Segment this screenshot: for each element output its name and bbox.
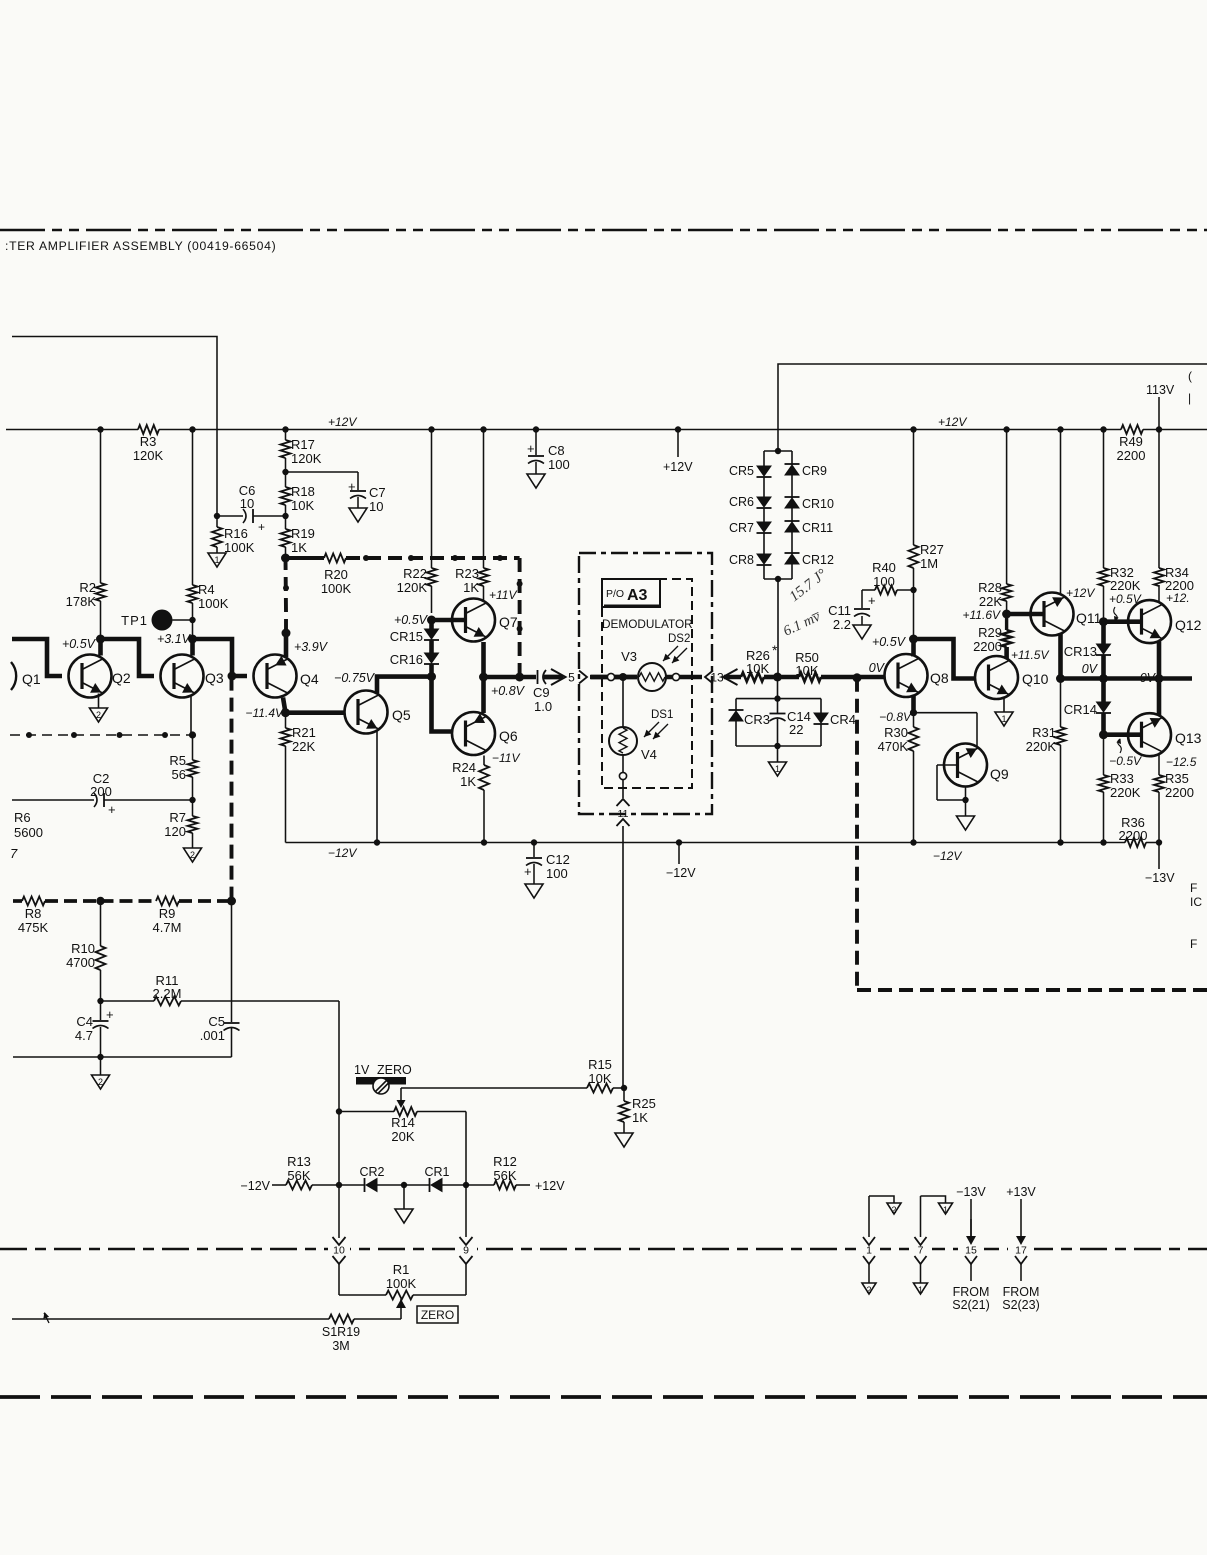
svg-text:10K: 10K (291, 498, 314, 513)
svg-text:7: 7 (10, 846, 18, 861)
svg-text:100K: 100K (321, 581, 352, 596)
svg-text:3M: 3M (332, 1339, 349, 1353)
wire Q11 collector to 0V bus (1056, 634, 1065, 683)
svg-text:1: 1 (214, 555, 219, 565)
svg-text:Q8: Q8 (930, 670, 949, 686)
resistor R30 (878, 713, 919, 846)
svg-text:R9: R9 (159, 906, 176, 921)
wire Q6 collector to R24 (483, 756, 485, 766)
transistor Q9 (944, 744, 1009, 787)
svg-text:R15: R15 (588, 1057, 612, 1072)
transistor Q2 (69, 655, 131, 698)
resistor R7 (164, 800, 197, 848)
svg-text:100K: 100K (198, 596, 229, 611)
node +3.1V at Q3 base (157, 632, 197, 646)
svg-text:TP1: TP1 (121, 613, 148, 628)
wire Q2 emitter to ground (98, 694, 100, 709)
resistor R32 (1099, 426, 1141, 621)
capacitor C2 (12, 771, 193, 817)
svg-text:470K: 470K (878, 739, 909, 754)
wire Q3 emitter (190, 695, 192, 736)
resistor R50 (778, 650, 886, 682)
wire dash-dot bias line y735 (10, 731, 196, 738)
wire top-left input (12, 337, 217, 517)
svg-text:+12V: +12V (535, 1179, 565, 1193)
capacitor C9 (533, 670, 561, 714)
wire feedback vertical (thick dashed) (227, 677, 236, 906)
resistor R3 (133, 425, 164, 463)
svg-text:17: 17 (1015, 1245, 1027, 1257)
ground at Q2 emitter (90, 708, 108, 722)
svg-text:10: 10 (369, 499, 383, 514)
svg-text:V4: V4 (641, 747, 657, 762)
resistor R31 (1026, 679, 1066, 846)
svg-text:+: + (258, 520, 265, 534)
svg-text:ZERO: ZERO (377, 1063, 412, 1077)
connector pin 17 +13V (1002, 1185, 1040, 1312)
wire -12V rail (286, 843, 1160, 864)
capacitor C14 (770, 699, 811, 746)
svg-text:R1: R1 (393, 1262, 410, 1277)
svg-text:R20: R20 (324, 567, 348, 582)
wire V3 to pin 13 (666, 673, 702, 680)
potentiometer R14 (339, 1088, 466, 1185)
wire demod input to V3 (591, 673, 637, 681)
svg-text:C4: C4 (76, 1014, 93, 1029)
svg-text:V3: V3 (621, 649, 637, 664)
capacitor C8 (527, 426, 570, 474)
svg-text:100K: 100K (386, 1276, 417, 1291)
svg-text:Q2: Q2 (112, 670, 131, 686)
svg-text:R17: R17 (291, 437, 315, 452)
svg-text:R21: R21 (292, 725, 316, 740)
resistor R15 (401, 1057, 627, 1093)
resistor R2 (66, 426, 106, 639)
diode CR1 (404, 1165, 469, 1192)
resistor R16 (212, 516, 255, 555)
svg-text:Q9: Q9 (990, 766, 1009, 782)
diode CR14 (1064, 679, 1111, 735)
svg-text:22K: 22K (292, 739, 315, 754)
svg-text:CR4: CR4 (830, 712, 856, 727)
wire feedback R8 R9 line (13, 897, 232, 905)
svg-text:+: + (524, 864, 532, 879)
wire Q7 base (thick) (432, 618, 466, 623)
svg-text:S2(21): S2(21) (952, 1298, 990, 1312)
capacitor C4 (75, 1001, 114, 1057)
svg-text:R25: R25 (632, 1096, 656, 1111)
svg-text:R49: R49 (1119, 434, 1143, 449)
svg-text:220K: 220K (1110, 578, 1141, 593)
capacitor C7 (286, 472, 386, 514)
resistor R28 (978, 426, 1011, 614)
resistor R9 (153, 897, 182, 936)
svg-text:10: 10 (240, 496, 254, 511)
svg-text:9: 9 (463, 1245, 469, 1257)
ground at R7 (184, 848, 202, 862)
svg-text:C7: C7 (369, 485, 386, 500)
svg-text:+3.1V: +3.1V (157, 632, 192, 646)
svg-text:2.2M: 2.2M (153, 986, 182, 1001)
diode CR16 (390, 652, 439, 677)
wire Q5 emitter (374, 731, 380, 846)
wire Q9 base-collector tie (937, 765, 969, 816)
resistor R8 (18, 897, 49, 936)
transistor Q4 (254, 655, 319, 698)
node +0.5V Q12 base (1099, 592, 1142, 626)
svg-text:120K: 120K (291, 451, 322, 466)
resistor R49 (1117, 425, 1146, 463)
demodulator inner box (602, 579, 692, 788)
svg-text:Q7: Q7 (499, 614, 518, 630)
svg-text:C8: C8 (548, 443, 565, 458)
svg-text:Q4: Q4 (300, 671, 319, 687)
connector pin 1 with grounds (863, 1196, 894, 1283)
clamp CR3 C14 CR4 network (736, 677, 821, 762)
resistor R20 (321, 554, 352, 597)
wire feedback right (thick dashed) (857, 678, 1207, 990)
svg-text:1K: 1K (632, 1110, 648, 1125)
resistor R22 (397, 426, 437, 613)
node +3.9V Q4 collector (282, 558, 329, 657)
diode CR3 (729, 710, 771, 727)
assembly border top (dash-dot) (0, 229, 1207, 232)
svg-text:0V: 0V (869, 661, 886, 675)
svg-text:+3.9V: +3.9V (294, 640, 329, 654)
svg-text:+: + (108, 802, 116, 817)
svg-text:R12: R12 (493, 1154, 517, 1169)
wire C4 C5 bottom (13, 1054, 232, 1075)
ground at C12 (525, 884, 543, 898)
potentiometer R1 (339, 1262, 466, 1319)
wire Q8 emitter node -0.8V (879, 696, 917, 724)
ground at CR1 CR2 (395, 1185, 413, 1223)
node +11.6V (963, 608, 1012, 622)
svg-text:+0.8V: +0.8V (491, 684, 526, 698)
ground at C11 (853, 625, 871, 639)
svg-text:5600: 5600 (14, 825, 43, 840)
wire Q12 emitter to 0V (1157, 641, 1162, 678)
svg-text:CR7: CR7 (729, 521, 754, 535)
svg-text:R27: R27 (920, 542, 944, 557)
svg-text:2: 2 (866, 1285, 871, 1295)
resistor R5 (169, 735, 197, 803)
resistor R33 (1099, 735, 1141, 846)
svg-text:4.7M: 4.7M (153, 920, 182, 935)
wire Q10 emitter to ground (1003, 698, 1005, 712)
svg-text:R6: R6 (14, 810, 31, 825)
svg-text:100: 100 (548, 457, 570, 472)
svg-text:Q6: Q6 (499, 728, 518, 744)
svg-text:1.0: 1.0 (534, 699, 552, 714)
svg-text:Q5: Q5 (392, 707, 411, 723)
svg-text:R3: R3 (140, 434, 157, 449)
svg-text:200: 200 (90, 784, 112, 799)
handwritten mark 15.7 (787, 566, 830, 605)
wire Q7 collector to R23 (483, 598, 485, 600)
transistor Q5 (345, 691, 411, 734)
svg-text:−11V: −11V (492, 751, 520, 765)
svg-text:22K: 22K (979, 594, 1002, 609)
resistor R11 (101, 973, 340, 1006)
svg-text:−12V: −12V (240, 1179, 270, 1193)
node CR16 to Q6 base (427, 672, 452, 731)
svg-text:1: 1 (943, 1205, 948, 1215)
ground below pin 7 (914, 1283, 928, 1295)
svg-text:F: F (1190, 937, 1197, 951)
connector pin 11 (617, 780, 630, 1089)
svg-text:22: 22 (789, 722, 803, 737)
control 1V ZERO (354, 1063, 412, 1094)
svg-text:R13: R13 (287, 1154, 311, 1169)
svg-text::TER AMPLIFIER ASSEMBLY (00419: :TER AMPLIFIER ASSEMBLY (00419-66504) (5, 239, 276, 253)
diode CR13 (1064, 622, 1111, 679)
svg-text:DEMODULATOR: DEMODULATOR (602, 617, 693, 631)
svg-text:2.2: 2.2 (833, 617, 851, 632)
svg-text:1K: 1K (463, 580, 479, 595)
svg-text:10K: 10K (795, 663, 818, 678)
svg-text:CR16: CR16 (390, 652, 423, 667)
svg-text:+12V: +12V (328, 415, 357, 429)
wire Q3 collector (190, 639, 195, 656)
node -13V (1145, 843, 1175, 886)
wire Q4 emitter node -11.4V (246, 698, 290, 721)
transistor Q1 (edge) (11, 662, 41, 690)
svg-text:100: 100 (546, 866, 568, 881)
node +0.5V Q8 collector (872, 635, 918, 650)
resistor R12 (466, 1154, 565, 1193)
title text METER AMPLIFIER ASSEMBLY (5, 239, 276, 253)
diode CR12 (785, 553, 835, 579)
diode CR4 (814, 712, 857, 727)
svg-text:R30: R30 (884, 725, 908, 740)
svg-text:R7: R7 (169, 810, 186, 825)
transistor Q8 (885, 654, 949, 697)
resistor R25 (619, 1088, 656, 1133)
svg-text:−12V: −12V (328, 846, 357, 860)
diode chain bottom wire (764, 576, 792, 677)
transistor Q13 (1128, 713, 1202, 769)
svg-text:220K: 220K (1110, 785, 1141, 800)
svg-text:R22: R22 (403, 566, 427, 581)
svg-text:R29: R29 (978, 625, 1002, 640)
wire Q4 to Q5 base (thick) (286, 710, 345, 715)
svg-text:2: 2 (96, 710, 101, 720)
svg-text:|: | (1188, 391, 1191, 405)
svg-text:CR13: CR13 (1064, 644, 1097, 659)
svg-text:−12V: −12V (666, 866, 696, 880)
wire top-right to diode chain (778, 364, 1207, 451)
svg-text:C9: C9 (533, 685, 550, 700)
svg-text:CR2: CR2 (359, 1165, 384, 1179)
svg-text:R40: R40 (872, 560, 896, 575)
svg-text:−11.4V: −11.4V (246, 706, 284, 720)
capacitor C5 (200, 901, 240, 1057)
svg-text:+0.5V: +0.5V (872, 635, 907, 649)
resistor R23 (455, 426, 488, 598)
svg-text:R10: R10 (71, 941, 95, 956)
diode CR9 (785, 464, 828, 498)
capacitor C11 (828, 590, 875, 632)
wire right edge cut glyphs (1188, 369, 1192, 405)
svg-text:Q11: Q11 (1076, 610, 1102, 626)
lamp V3 (621, 649, 666, 691)
svg-text:(: ( (1188, 369, 1192, 383)
node 113V supply (1146, 383, 1175, 433)
diode CR5 (729, 464, 772, 497)
resistor R13 (240, 1154, 339, 1193)
svg-text:Q13: Q13 (1175, 730, 1202, 746)
svg-text:CR11: CR11 (802, 521, 833, 535)
wire Q2 collector (98, 639, 103, 656)
transistor Q3 (161, 655, 224, 698)
svg-text:+12V: +12V (663, 460, 693, 474)
svg-text:CR9: CR9 (802, 464, 827, 478)
transistor Q12 (1128, 591, 1202, 643)
svg-text:1M: 1M (920, 556, 938, 571)
node +12V tag (663, 426, 693, 474)
svg-text:−0.8V: −0.8V (879, 710, 912, 724)
svg-text:10K: 10K (746, 661, 769, 676)
wire Q13 base (thick) (1104, 732, 1142, 737)
wire Q13 emitter to 0V (1157, 679, 1162, 716)
diode CR8 (729, 553, 772, 579)
transistor Q7 (452, 588, 518, 642)
resistor R29 (973, 614, 1049, 662)
svg-text:R24: R24 (452, 760, 476, 775)
resistor R10 (66, 901, 105, 1004)
svg-text:R19: R19 (291, 526, 315, 541)
svg-text:S2(23): S2(23) (1002, 1298, 1040, 1312)
resistor R27 (909, 426, 944, 639)
svg-text:−0.5V: −0.5V (1109, 754, 1142, 768)
svg-text:+0.5V: +0.5V (394, 613, 429, 627)
svg-text:FROM: FROM (953, 1285, 990, 1299)
svg-text:2200: 2200 (1165, 785, 1194, 800)
ground above pin 7 (939, 1203, 953, 1215)
resistor S1R19 (12, 1312, 401, 1353)
svg-text:−13V: −13V (956, 1185, 986, 1199)
diode CR2 (339, 1165, 407, 1192)
wire +12V rail (6, 415, 1207, 430)
svg-text:S1R19: S1R19 (322, 1325, 360, 1339)
connector pin 9 (460, 1185, 473, 1295)
resistor R40 (862, 560, 917, 595)
resistor R17 (281, 426, 322, 475)
svg-text:56: 56 (172, 767, 186, 782)
ground at R25 (615, 1133, 633, 1147)
svg-text:C12: C12 (546, 852, 570, 867)
svg-text:0V: 0V (1082, 662, 1099, 676)
svg-text:2200: 2200 (973, 639, 1002, 654)
transistor Q6 (452, 712, 518, 755)
svg-text:R2: R2 (79, 580, 96, 595)
svg-text:R18: R18 (291, 484, 315, 499)
svg-text:Q10: Q10 (1022, 671, 1049, 687)
svg-text:2200: 2200 (1117, 448, 1146, 463)
resistor R34 (1154, 430, 1194, 594)
svg-text:56K: 56K (287, 1168, 310, 1183)
ground above pin 1 (887, 1203, 901, 1215)
capacitor C12 (524, 839, 570, 884)
svg-text:R5: R5 (169, 753, 186, 768)
svg-text:+13V: +13V (1006, 1185, 1036, 1199)
svg-text:0V: 0V (1140, 671, 1157, 685)
connector pin 7 with grounds (915, 1196, 946, 1283)
svg-text:1K: 1K (460, 774, 476, 789)
ground at R16 (208, 553, 226, 567)
ground at C8 (527, 474, 545, 488)
wire Q1 collector to Q2 base (12, 639, 62, 676)
assembly border bottom (dash-dot with pins) (0, 1243, 1207, 1255)
svg-text:+: + (348, 479, 356, 494)
wire Q6/Q7 output node +0.8V (479, 642, 536, 713)
connector pin 15 -13V (952, 1185, 990, 1312)
svg-text:C5: C5 (208, 1014, 225, 1029)
resistor R19 (281, 516, 315, 558)
label box P/O A3 (602, 579, 660, 607)
svg-text:120K: 120K (397, 580, 428, 595)
svg-text:R23: R23 (455, 566, 479, 581)
svg-text:CR5: CR5 (729, 464, 754, 478)
svg-text:100: 100 (873, 574, 895, 589)
diode CR6 (729, 495, 772, 522)
svg-text:+11V: +11V (489, 588, 517, 602)
svg-text:DS1: DS1 (651, 709, 673, 721)
diode CR10 (785, 497, 835, 522)
label DEMODULATOR (602, 617, 693, 631)
ground below pin 1 (862, 1283, 876, 1295)
svg-text:2200: 2200 (1119, 828, 1148, 843)
svg-text:1: 1 (1001, 714, 1006, 724)
svg-text:−0.75V: −0.75V (334, 671, 376, 685)
svg-text:CR15: CR15 (390, 629, 423, 644)
svg-text:CR14: CR14 (1064, 702, 1097, 717)
transistor Q11 (1031, 586, 1102, 636)
svg-text:R28: R28 (978, 580, 1002, 595)
svg-text:10K: 10K (588, 1071, 611, 1086)
svg-text:R35: R35 (1165, 771, 1189, 786)
svg-text:15: 15 (965, 1245, 977, 1257)
label DS2 with arrows (663, 633, 690, 663)
wire right edge cut text (1190, 881, 1202, 951)
demodulator outer box P/O A3 (579, 553, 712, 814)
svg-text:−12V: −12V (933, 849, 962, 863)
label DS1 with arrows (644, 709, 673, 739)
wire Q8 to Q10 (thick) (914, 639, 976, 679)
svg-text:+12V: +12V (938, 415, 967, 429)
svg-text:4700: 4700 (66, 955, 95, 970)
assembly border bottom second (0, 1395, 1207, 1399)
svg-text:.001: .001 (200, 1028, 225, 1043)
connector pin 10 (333, 1237, 346, 1295)
svg-text:113V: 113V (1146, 383, 1175, 397)
svg-text:DS2: DS2 (668, 633, 690, 645)
svg-text:C11: C11 (828, 603, 851, 618)
svg-text:7: 7 (918, 1245, 924, 1257)
svg-text:*: * (772, 642, 778, 658)
svg-text:1: 1 (918, 1285, 923, 1295)
svg-text:+: + (106, 1007, 114, 1022)
wire Q3 to Q4 (thick) (193, 639, 248, 681)
svg-text:+11.5V: +11.5V (1011, 648, 1049, 662)
label ZERO box (417, 1306, 458, 1323)
resistor R35 (1154, 771, 1194, 843)
wire Q12 collector to R34 (1158, 585, 1160, 602)
svg-text:1: 1 (775, 764, 780, 774)
resistor R26 (741, 642, 782, 682)
svg-text:220K: 220K (1026, 739, 1057, 754)
